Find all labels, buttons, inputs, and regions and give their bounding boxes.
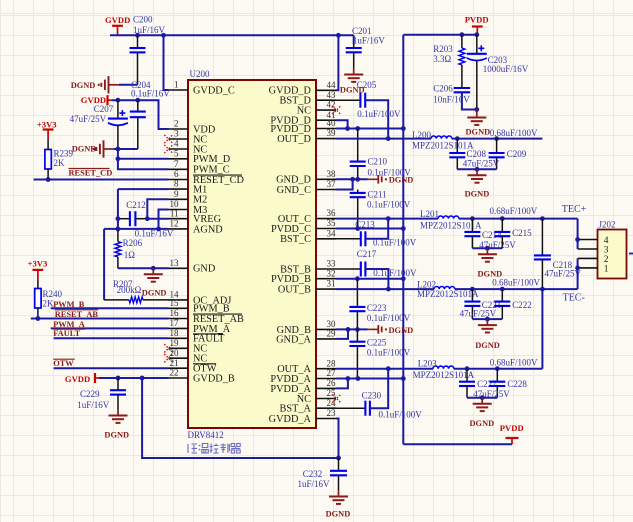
wire fragment at right edge — [629, 253, 633, 255]
svg-text:44: 44 — [327, 80, 337, 90]
C208 value 47uF/25V — [463, 159, 500, 169]
ground DGND (under C201) — [340, 68, 365, 94]
svg-text:DGND: DGND — [389, 326, 414, 335]
svg-text:PVDD: PVDD — [465, 15, 489, 25]
C215 value 0.68uF/100V — [490, 206, 538, 216]
wire PVDD_A pins 27/26 — [336, 379, 403, 389]
U200 pin 10 M3 stub — [169, 209, 189, 211]
U200 pin name NC — [193, 144, 207, 155]
svg-text:OUT_B: OUT_B — [278, 285, 311, 296]
svg-text:L202: L202 — [417, 279, 436, 289]
svg-text:23: 23 — [327, 408, 337, 418]
node C221/C222 junction — [485, 317, 490, 322]
capacitor C204 — [130, 100, 146, 149]
U200 pin 3 number — [174, 129, 179, 139]
ground DGND (channel B) — [475, 319, 500, 350]
ground DGND (under C229) — [104, 409, 129, 440]
J202 pin 1 number — [604, 265, 609, 275]
U200 pin name NC — [193, 134, 207, 145]
U200 pin 33 BST_B stub — [316, 268, 336, 270]
U200 pin 4 number — [174, 139, 179, 149]
svg-text:1Ω: 1Ω — [124, 250, 136, 260]
wire C200 to DGND — [119, 84, 138, 86]
C213 value 0.1uF/100V — [373, 237, 417, 247]
ground DGND (pins 30/29) — [368, 325, 414, 335]
svg-text:DGND: DGND — [71, 81, 96, 90]
svg-text:C211: C211 — [368, 189, 387, 199]
U200 pin name BST_A — [280, 404, 312, 415]
svg-text:15: 15 — [170, 298, 180, 308]
wire AGND pin 12 net — [104, 228, 168, 230]
U200 pin name RESET_AB — [193, 314, 244, 325]
U200 pin name NC — [297, 106, 311, 117]
L201 designator — [420, 209, 439, 219]
U200 pin 44 number — [327, 80, 337, 90]
node GVDD bottom junction — [336, 456, 341, 461]
svg-text:33: 33 — [327, 259, 337, 269]
C205 value 0.1uF/100V — [357, 109, 401, 119]
svg-text:GVDD: GVDD — [105, 15, 130, 25]
capacitor C214 — [464, 219, 480, 249]
U200 pin name GVDD_B — [193, 373, 235, 384]
U200 pin name OTW — [193, 364, 217, 375]
inductor L201 — [438, 216, 459, 219]
U200 pin name M1 — [193, 185, 207, 196]
svg-text:7: 7 — [174, 159, 179, 169]
svg-text:DGND: DGND — [465, 190, 490, 199]
svg-text:0.68uF/100V: 0.68uF/100V — [490, 357, 538, 367]
svg-text:43: 43 — [327, 90, 337, 100]
resistor R240 — [35, 280, 41, 319]
inductor L200 — [431, 136, 452, 139]
net label RESET_CD — [69, 169, 113, 178]
U200 pin name PVDD_A — [270, 374, 311, 385]
svg-text:5: 5 — [174, 148, 179, 158]
svg-text:30: 30 — [327, 319, 337, 329]
C221 designator — [482, 300, 502, 310]
svg-text:C212: C212 — [126, 200, 146, 210]
svg-text:35: 35 — [327, 218, 337, 228]
U200 pin name GND_B — [277, 325, 311, 336]
svg-text:MPZ2012S101A: MPZ2012S101A — [413, 370, 475, 380]
U200 pin 23 GVDD_A stub — [316, 418, 336, 420]
C203 designator — [488, 55, 508, 65]
svg-text:L201: L201 — [420, 209, 439, 219]
inductor L203 — [433, 366, 454, 369]
wire GND_D pin 38 net — [336, 178, 368, 180]
C211 value 0.1uF/100V — [367, 199, 411, 209]
svg-text:J202: J202 — [599, 219, 616, 229]
U200 pin name BST_D — [280, 96, 312, 107]
svg-text:DGND: DGND — [72, 145, 97, 154]
node C208/C209 junction — [475, 167, 480, 172]
svg-text:DGND: DGND — [470, 419, 495, 428]
svg-text:42: 42 — [327, 100, 336, 110]
C232 value 1uF/16V — [298, 479, 331, 489]
U200 pin 8 number — [174, 179, 179, 189]
U200 pin 14 number — [170, 290, 180, 300]
node R240 RESET_AB junction — [36, 316, 41, 321]
wire RESET_CD net — [34, 179, 169, 181]
no-connect cross pin 42 — [332, 106, 340, 114]
wire GVDD_A pin 23 drop — [336, 419, 339, 459]
U200 pin 23 number — [327, 408, 337, 418]
U200 pin 20 number — [170, 348, 180, 358]
node OUT_D junctions — [386, 136, 499, 141]
resistor R206 — [115, 232, 121, 268]
svg-text:BST_C: BST_C — [280, 234, 311, 245]
svg-text:C227: C227 — [477, 379, 497, 389]
U200 pin name PWM_A — [193, 324, 231, 335]
wire M2 pin 9 to VREG net — [147, 199, 168, 218]
U200 pin 19 NC stub — [169, 347, 189, 349]
node AGND junctions — [116, 227, 161, 232]
L203 value MPZ2012S101A — [413, 370, 475, 380]
ground DGND (channel D) — [465, 169, 490, 198]
U200 pin 18 FAULT stub — [169, 337, 189, 339]
capacitor C200 — [130, 35, 146, 85]
svg-text:L203: L203 — [418, 359, 437, 369]
C210 designator — [368, 157, 388, 167]
net label TEC- — [563, 293, 585, 304]
svg-text:C207: C207 — [94, 104, 114, 114]
C222 designator — [512, 300, 532, 310]
svg-text:C206: C206 — [433, 84, 453, 94]
capacitor C221 — [464, 289, 480, 319]
svg-text:MPZ2012S101A: MPZ2012S101A — [412, 141, 474, 151]
resistor R203 — [459, 35, 465, 88]
svg-text:32: 32 — [327, 268, 336, 278]
U200 pin 11 number — [170, 208, 179, 218]
svg-text:200kΩ: 200kΩ — [117, 285, 142, 295]
connector J202 body — [598, 230, 627, 279]
C201 value 1uF/16V — [353, 35, 386, 45]
capacitor C217 (BST_B bootstrap) — [336, 262, 388, 290]
U200 pin name RESET_CD — [193, 175, 244, 186]
C204 value 0.1uF/16V — [131, 88, 170, 98]
U200 pin 5 number — [174, 148, 179, 158]
U200 pin 11 VREG stub — [169, 218, 189, 220]
svg-text:C209: C209 — [507, 149, 527, 159]
power port GVDD (left) — [81, 95, 112, 105]
svg-text:RESET_CD: RESET_CD — [69, 169, 113, 178]
net label PWM_B — [53, 300, 85, 309]
wire DGND to C204 bottom — [114, 148, 138, 150]
ground DGND (channel A) — [470, 398, 495, 428]
svg-text:PWM_A: PWM_A — [53, 320, 85, 329]
U200 pin 29 GND_A stub — [316, 338, 336, 340]
U200 pin 44 GVDD_D stub — [316, 89, 336, 91]
svg-text:FAULT: FAULT — [53, 329, 80, 338]
C214 value 47uF/25V — [479, 240, 516, 250]
U200 pin 26 PVDD_A stub — [316, 387, 336, 389]
node GND pin13 junction — [151, 266, 156, 271]
ground DGND (under C200) — [71, 76, 119, 93]
wire GND_A pin 29 jog — [336, 329, 348, 339]
U200 pin 34 BST_C stub — [316, 238, 336, 240]
U200 pin 6 number — [174, 169, 179, 179]
J202 pin 3 stub — [578, 248, 598, 250]
svg-text:GVDD: GVDD — [65, 374, 90, 384]
node C207/C204 ground junction — [116, 147, 121, 152]
U200 pin 25 number — [327, 388, 337, 398]
U200 pin 36 OUT_C stub — [316, 218, 336, 220]
U200 pin 36 number — [327, 208, 337, 218]
svg-text:C210: C210 — [368, 157, 388, 167]
wire M1 pin 8 to rail — [118, 189, 169, 232]
C230 value 0.1uF/100V — [379, 409, 423, 419]
wire GVDD to pin 1 — [164, 35, 169, 90]
svg-text:4: 4 — [604, 236, 609, 246]
capacitor C227 — [459, 369, 475, 398]
C200 value 1uF/16V — [133, 25, 166, 35]
U200 pin 41 number — [327, 110, 336, 120]
node PVDD_C junctions — [355, 226, 405, 231]
U200 pin 16 RESET_AB stub — [169, 318, 189, 320]
svg-text:DGND: DGND — [326, 510, 351, 519]
ground DGND (under C203) — [466, 110, 491, 137]
svg-text:8: 8 — [174, 179, 179, 189]
U200 pin 20 NC stub — [169, 357, 189, 359]
U200 pin 21 OTW stub — [169, 367, 189, 369]
C227 designator — [477, 379, 497, 389]
svg-text:0.1uF/100V: 0.1uF/100V — [373, 268, 417, 278]
svg-text:C208: C208 — [467, 149, 487, 159]
wire RESET_AB net — [31, 318, 169, 320]
U200 pin 32 number — [327, 268, 336, 278]
wire OTW net — [54, 367, 169, 369]
U200 pin 27 PVDD_A stub — [316, 378, 336, 380]
svg-text:1: 1 — [604, 265, 609, 275]
svg-text:17: 17 — [170, 318, 180, 328]
inductor L202 — [434, 287, 455, 290]
wire GND_B pin 30 net — [336, 328, 368, 330]
R203 designator — [433, 44, 453, 54]
wire GVDD bottom bus — [142, 378, 338, 458]
U200 pin name PVDD_D — [270, 124, 311, 135]
J202 pin 4 stub — [578, 239, 598, 241]
capacitor C206 — [454, 88, 477, 110]
C204 designator — [131, 80, 151, 90]
U200 pin name VREG — [193, 214, 222, 225]
U200 pin 39 number — [327, 128, 337, 138]
U200 pin 30 GND_B stub — [316, 328, 336, 330]
svg-text:RESET_AB: RESET_AB — [55, 310, 99, 319]
svg-text:TEC+: TEC+ — [562, 204, 587, 215]
node C212 right junction — [145, 216, 150, 221]
J202 designator — [599, 219, 616, 229]
U200 pin name GVDD_C — [193, 85, 235, 96]
capacitor C215 — [494, 219, 510, 249]
svg-text:0.1uF/100V: 0.1uF/100V — [367, 348, 411, 358]
svg-text:0.68uF/100V: 0.68uF/100V — [490, 128, 538, 138]
svg-text:GVDD_C: GVDD_C — [193, 85, 235, 96]
ground DGND (channel C) — [478, 248, 503, 278]
U200 part number DRV8412 — [188, 430, 224, 440]
C214 designator — [482, 230, 502, 240]
svg-text:1: 1 — [174, 80, 179, 90]
svg-text:2: 2 — [174, 119, 179, 129]
svg-text:TEC-: TEC- — [563, 293, 585, 304]
wire ground node to PWM_D pin 5 and PWM_C pin 7 — [118, 149, 169, 169]
svg-text:21: 21 — [170, 358, 179, 368]
wire GND_C pin 37 jog — [336, 179, 353, 189]
J202 pin 2 stub — [578, 257, 598, 259]
capacitor C207 (electrolytic) — [108, 100, 128, 149]
power port +3V3 (lower) — [28, 259, 48, 281]
node GVDD_B junctions — [116, 376, 145, 381]
U200 pin 27 number — [327, 368, 337, 378]
svg-text:26: 26 — [327, 378, 337, 388]
wire M3 pin 10 to AGND net — [159, 210, 169, 229]
resistor R239 — [45, 140, 51, 180]
U200 pin 37 number — [327, 179, 337, 189]
ground DGND (pin 13) — [142, 268, 167, 297]
U200 pin 17 PWM_A stub — [169, 327, 189, 329]
svg-text:PWM_B: PWM_B — [53, 300, 85, 309]
svg-text:1uF/16V: 1uF/16V — [353, 35, 386, 45]
U200 pin 6 RESET_CD stub — [169, 179, 189, 181]
U200 pin 16 number — [170, 308, 180, 318]
svg-text:PVDD_B: PVDD_B — [271, 274, 311, 285]
svg-text:OTW: OTW — [53, 359, 74, 368]
C215 designator — [512, 228, 532, 238]
capacitor C230 (BST_A bootstrap) — [336, 369, 388, 416]
capacitor C232 — [330, 458, 347, 490]
R207 designator — [113, 279, 133, 289]
node R239 RESET_CD junction — [46, 177, 51, 182]
U200 pin 15 number — [170, 298, 180, 308]
svg-text:0.68uF/100V: 0.68uF/100V — [490, 206, 538, 216]
C227 value 47uF/25V — [473, 389, 510, 399]
wire C214/C215 ground join — [472, 247, 502, 249]
resistor R207 — [129, 297, 169, 303]
wire PVDD_C pin 35 net — [336, 228, 403, 230]
node PVDD_B junctions — [355, 276, 406, 281]
wire PWM_A net — [51, 327, 169, 329]
svg-text:R239: R239 — [54, 148, 74, 158]
wire PVDD_D pins 41/40 — [336, 120, 403, 128]
L202 value MPZ2012S101A — [417, 289, 479, 299]
C209 designator — [507, 149, 527, 159]
capacitor C223 — [349, 279, 365, 330]
svg-text:C200: C200 — [133, 14, 153, 24]
U200 pin 42 NC stub — [316, 109, 336, 111]
C213 designator — [355, 219, 375, 229]
svg-text:U200: U200 — [190, 69, 210, 79]
U200 pin 17 number — [170, 318, 180, 328]
capacitor C212 — [118, 211, 147, 226]
R240 value 2K — [43, 299, 55, 309]
wire PVDD rail top — [403, 34, 477, 36]
svg-text:12: 12 — [170, 219, 179, 229]
svg-text:R203: R203 — [433, 44, 453, 54]
node GND_B junctions — [346, 327, 360, 332]
svg-text:1uF/16V: 1uF/16V — [298, 479, 331, 489]
svg-text:C232: C232 — [303, 469, 323, 479]
L203 designator — [418, 359, 437, 369]
U200 pin 31 number — [327, 279, 336, 289]
svg-text:31: 31 — [327, 279, 336, 289]
U200 pin name NC — [297, 394, 311, 405]
node OUT_C junctions — [386, 216, 545, 221]
U200 pin name BST_C — [280, 234, 311, 245]
net label TEC+ — [562, 204, 587, 215]
net label FAULT — [53, 329, 84, 338]
C203 value 1000uF/16V — [483, 64, 529, 74]
U200 pin name PWM_B — [193, 304, 230, 315]
svg-text:GND_C: GND_C — [277, 185, 311, 196]
power port GVDD (top) — [105, 15, 130, 35]
no-connect cross pin 20 — [164, 354, 172, 362]
svg-text:37: 37 — [327, 179, 337, 189]
C209 value 0.68uF/100V — [490, 128, 538, 138]
U200 pin 43 BST_D stub — [316, 99, 336, 101]
U200 pin 26 number — [327, 378, 337, 388]
capacitor C211 — [350, 190, 366, 229]
svg-text:C229: C229 — [80, 389, 100, 399]
IC U200 DRV8412 body — [188, 80, 316, 428]
R239 designator — [54, 148, 74, 158]
svg-text:DGND: DGND — [142, 288, 167, 297]
node OUT_B junctions — [386, 287, 545, 292]
svg-text:MPZ2012S101A: MPZ2012S101A — [417, 289, 479, 299]
capacitor C210 — [350, 129, 366, 180]
U200 pin name OUT_B — [278, 285, 311, 296]
U200 pin 1 number — [174, 80, 179, 90]
svg-text:1uF/16V: 1uF/16V — [77, 400, 110, 410]
U200 pin name PWM_C — [193, 165, 230, 176]
node GVDD rail2 junctions — [116, 98, 141, 103]
U200 pin name AGND — [193, 224, 223, 235]
wire OUT_A net — [336, 289, 542, 369]
U200 pin 34 number — [327, 228, 337, 238]
svg-text:38: 38 — [327, 169, 337, 179]
svg-text:0.68uF/100V: 0.68uF/100V — [492, 277, 540, 287]
svg-text:C213: C213 — [355, 219, 375, 229]
C225 designator — [367, 338, 387, 348]
svg-text:GVDD_A: GVDD_A — [269, 414, 312, 425]
wire TEC- to J202 pins 2/1 — [577, 258, 579, 289]
U200 pin 3 NC stub — [169, 138, 189, 140]
wire C208/C209 ground join — [457, 168, 496, 170]
U200 pin 22 GVDD_B stub — [169, 377, 189, 379]
C217 value 0.1uF/100V — [373, 268, 417, 278]
svg-text:DGND: DGND — [389, 176, 414, 185]
U200 pin 9 M2 stub — [169, 198, 189, 200]
U200 pin 40 PVDD_D stub — [316, 128, 336, 130]
svg-text:20: 20 — [170, 348, 180, 358]
svg-text:C225: C225 — [367, 338, 387, 348]
U200 pin 2 number — [174, 119, 179, 129]
U200 pin 9 number — [174, 189, 179, 199]
wire FAULT net — [54, 337, 169, 339]
U200 pin 18 number — [170, 328, 180, 338]
ground DGND (pins 38/37) — [368, 175, 414, 185]
ground DGND (under C232) — [326, 490, 351, 519]
svg-text:R206: R206 — [123, 238, 143, 248]
node J202 pin 1 junction — [575, 266, 580, 271]
wire GND pin 13 net — [118, 267, 169, 269]
wire PVDD bus to port (bottom) — [403, 443, 512, 445]
C218 designator — [553, 260, 573, 270]
U200 pin 29 number — [327, 329, 337, 339]
node C214/C215 junction — [485, 246, 490, 251]
U200 pin 2 VDD stub — [169, 128, 189, 130]
J202 pin 4 number — [604, 236, 609, 246]
J202 pin 3 number — [604, 245, 609, 255]
U200 pin 35 PVDD_C stub — [316, 228, 336, 230]
